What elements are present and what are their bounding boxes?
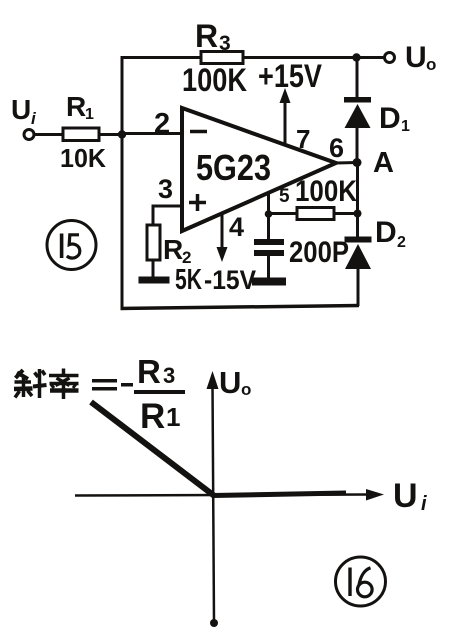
resistor R2 [147, 225, 160, 260]
output terminal Uo [385, 53, 395, 63]
svg-text:U: U [393, 477, 418, 515]
resistor R3 [201, 52, 243, 64]
wire node A down to D2 [356, 162, 359, 237]
figure number 15 [47, 221, 96, 270]
fraction bar [134, 390, 185, 394]
wire junction to output terminal [356, 56, 384, 59]
equals sign [92, 379, 117, 391]
node A dot [353, 158, 362, 167]
svg-text:3: 3 [158, 174, 173, 204]
label R2 [163, 234, 191, 267]
svg-text:o: o [241, 380, 251, 399]
svg-text:5K: 5K [175, 264, 202, 296]
transfer curve sloped segment [91, 402, 215, 496]
svg-text:200P: 200P [289, 236, 349, 269]
svg-text:-15V: -15V [204, 265, 256, 295]
svg-text:7: 7 [296, 124, 310, 154]
svg-text:U: U [219, 365, 241, 400]
figure number 16 [336, 557, 386, 606]
wire opamp output to node A [336, 161, 357, 165]
wire R3 to output junction [243, 56, 356, 59]
node junction output [352, 53, 360, 61]
svg-text:100K: 100K [182, 62, 247, 98]
svg-text:o: o [426, 55, 436, 74]
svg-text:D: D [375, 216, 397, 249]
svg-text:D: D [379, 102, 401, 135]
label 斜 (slope char 1) [14, 369, 47, 398]
resistor 100K (pin5 to node A) [297, 208, 334, 220]
transfer curve flat segment [213, 493, 346, 496]
wire R2 to ground [152, 260, 155, 278]
wire node to 100K resistor [269, 212, 298, 215]
svg-text:U: U [11, 94, 31, 125]
axis Uo vertical [207, 371, 219, 622]
label 率 (slope char 2) [49, 369, 79, 400]
wire pin 3 to R2 [153, 206, 182, 226]
pin 4 stub and -15V arrow [217, 212, 228, 262]
svg-text:3: 3 [219, 32, 231, 55]
ground R2 [139, 277, 170, 284]
wire left vertical feedback [121, 57, 124, 309]
wire input to R1 [34, 133, 63, 136]
svg-text:1: 1 [166, 402, 180, 432]
svg-text:5: 5 [279, 186, 290, 207]
svg-text:U: U [405, 41, 427, 74]
pin 7 stub and +15V arrow [280, 88, 291, 145]
wire junction down to D1 [356, 58, 359, 99]
label R1 [66, 91, 94, 123]
wire 100K to right vertical [334, 212, 358, 215]
svg-text:100K: 100K [295, 175, 357, 208]
wire D1 to node A [356, 127, 359, 163]
wire bottom rail [121, 306, 360, 309]
label R3 [195, 18, 231, 55]
svg-text:A: A [373, 147, 394, 179]
svg-text:R: R [66, 91, 86, 122]
label D2 [375, 216, 406, 251]
ground capacitor [252, 278, 286, 286]
label Ui [11, 94, 37, 128]
capacitor C 200P [254, 214, 284, 279]
wire node to pin 2 [122, 132, 182, 135]
svg-text:R: R [140, 397, 165, 436]
node junction 100K right end [354, 210, 362, 218]
input terminal Ui [24, 130, 34, 140]
svg-text:R: R [195, 18, 218, 54]
label Ui graph [393, 477, 427, 515]
svg-text:2: 2 [397, 234, 406, 251]
op-amp U1 5G23 [182, 108, 336, 231]
fraction numerator R3 [137, 353, 175, 390]
axis bottom end dot [210, 619, 218, 627]
minus input marking [190, 130, 207, 134]
svg-text:4: 4 [229, 212, 244, 242]
wire R1 to input node [99, 133, 122, 136]
minus sign [121, 383, 133, 387]
svg-text:+15V: +15V [258, 58, 323, 94]
svg-text:10K: 10K [60, 143, 106, 173]
wire D2 to bottom rail [357, 268, 360, 306]
svg-text:R: R [163, 234, 183, 265]
svg-text:i: i [31, 109, 37, 128]
svg-text:5G23: 5G23 [196, 147, 271, 188]
svg-text:1: 1 [401, 118, 410, 135]
label Uo [405, 41, 436, 74]
fraction denominator R1 [140, 397, 180, 436]
svg-text:3: 3 [163, 363, 175, 388]
node junction at inverting input [118, 130, 126, 138]
pin 5 stub [267, 192, 270, 214]
wire feedback top left segment [121, 56, 202, 59]
axis Ui horizontal [75, 489, 384, 501]
node junction 100K left end [265, 210, 273, 218]
diode D1 [344, 97, 371, 128]
label Uo graph [219, 365, 251, 400]
label D1 [379, 102, 410, 135]
svg-text:R: R [137, 353, 161, 390]
resistor R1 [63, 128, 99, 141]
svg-text:2: 2 [154, 108, 170, 140]
svg-text:i: i [421, 493, 427, 515]
svg-text:6: 6 [329, 133, 344, 163]
plus input marking [189, 194, 206, 211]
diode D2 [345, 237, 372, 270]
svg-text:1: 1 [85, 106, 94, 123]
